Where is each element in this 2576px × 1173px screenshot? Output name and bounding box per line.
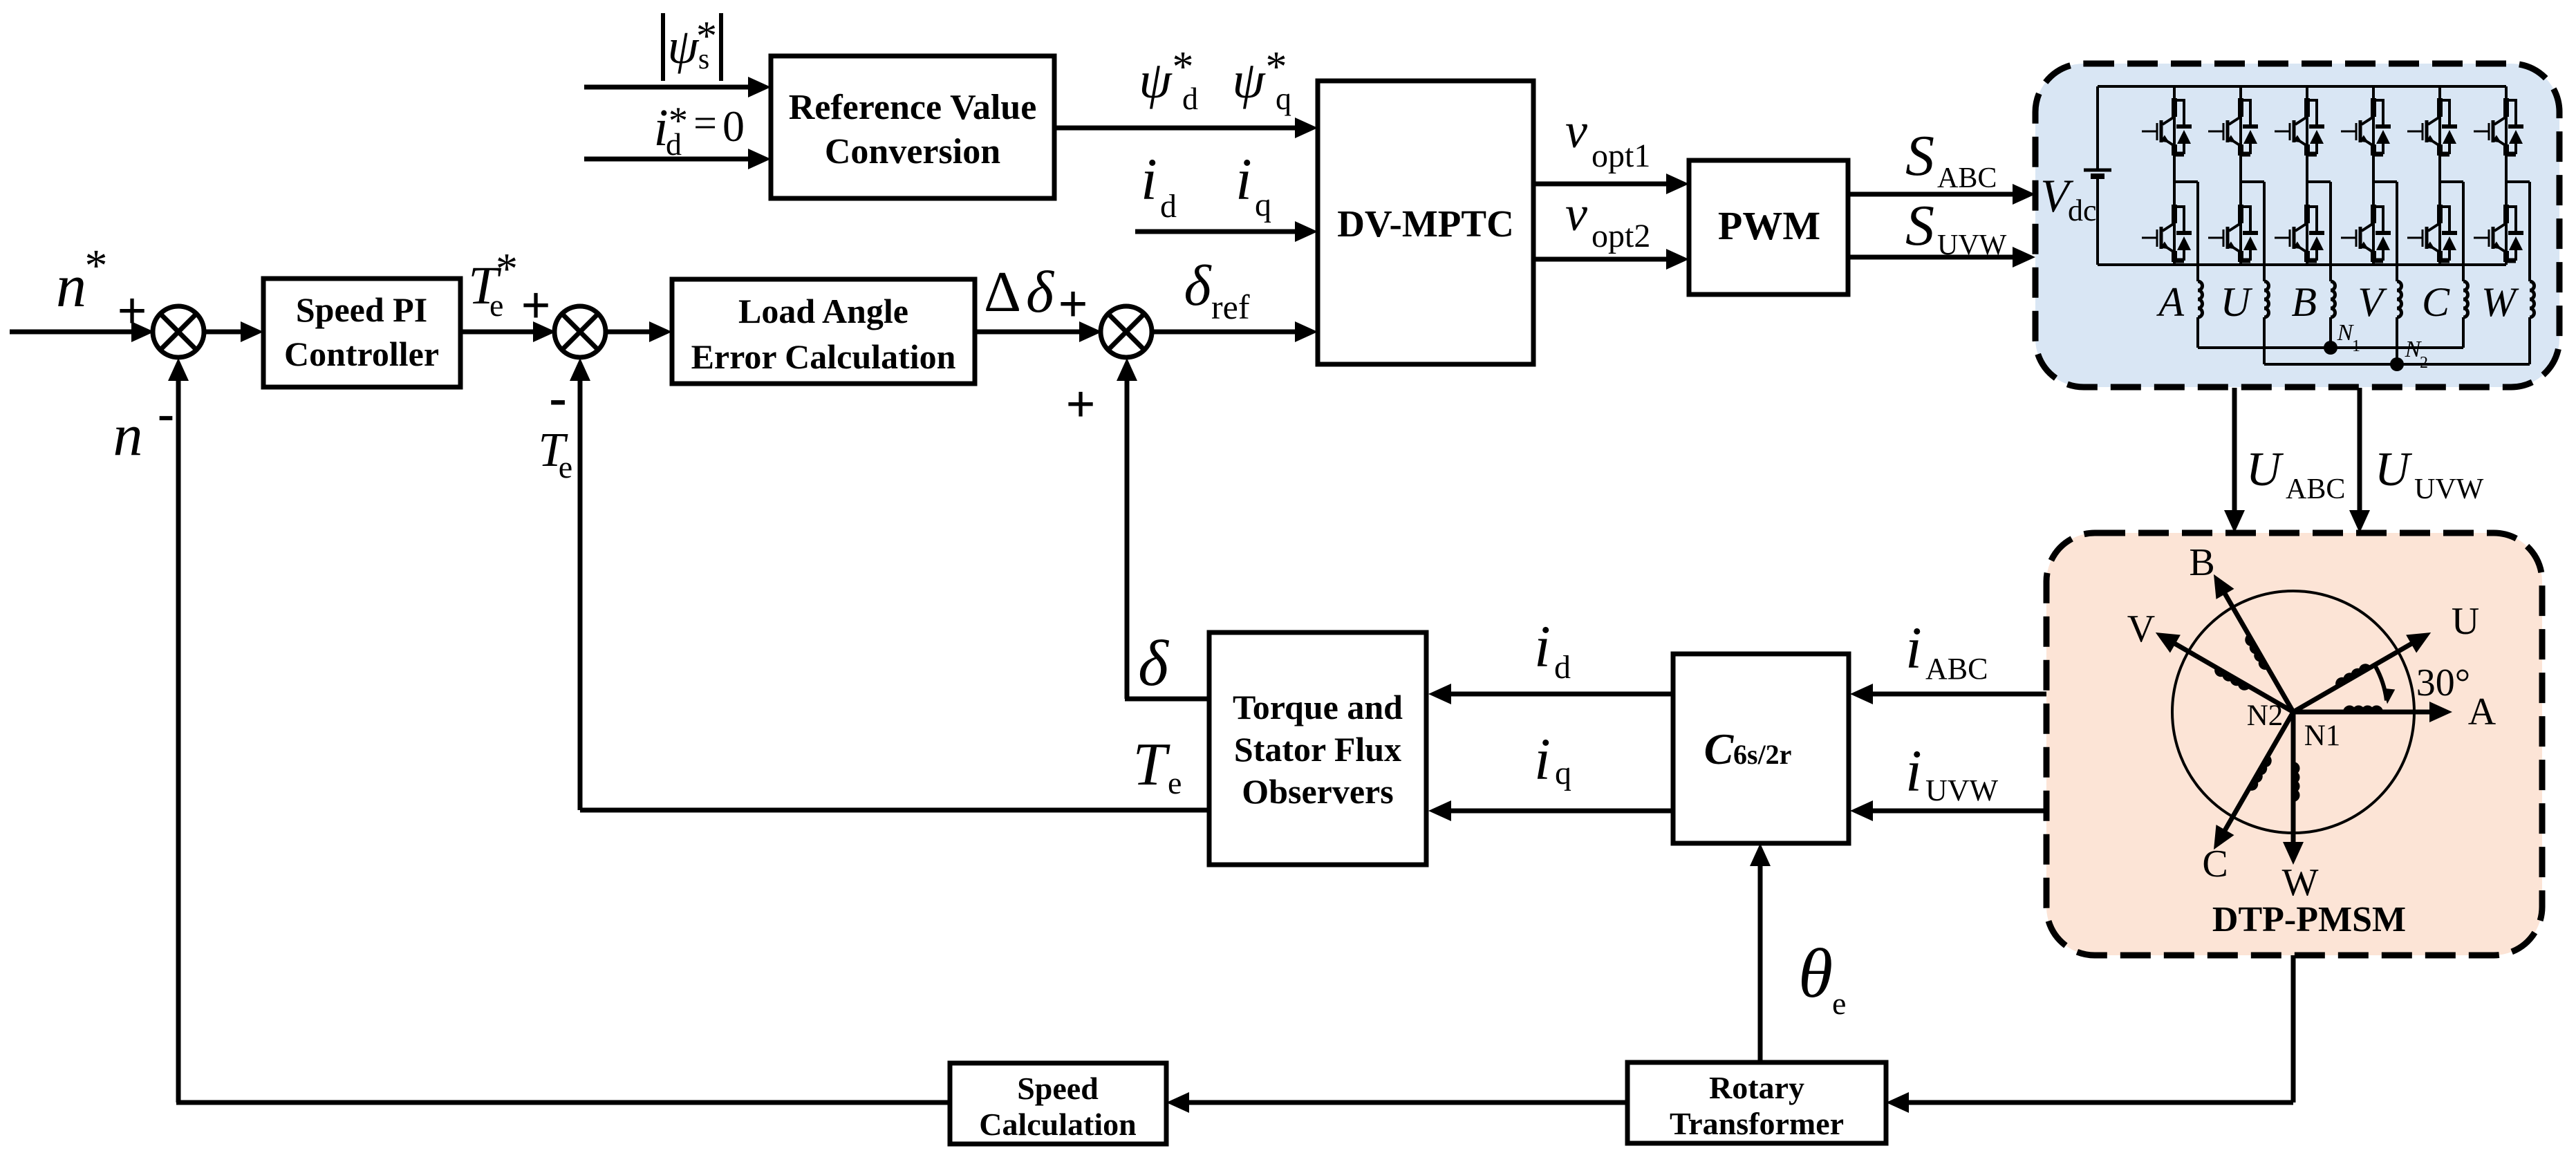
svg-text:S: S [1905, 194, 1934, 258]
coil C bottom wire [2462, 317, 2465, 348]
motor dashed enclosure [2046, 533, 2542, 955]
phase tap wire V [2373, 180, 2397, 183]
svg-text:Stator Flux: Stator Flux [1234, 730, 1401, 769]
IGBT top leg B with freewheel diode [2304, 98, 2310, 117]
coil W bottom wire [2528, 317, 2531, 364]
inverter leg W wire [2505, 86, 2508, 265]
phase tap wire A [2174, 180, 2198, 183]
svg-text:Speed: Speed [1017, 1071, 1099, 1106]
IGBT bottom leg C with freewheel diode [2437, 205, 2443, 223]
block Torque and Stator Flux Observers [1209, 632, 1426, 865]
wire vopt1 to PWM [1533, 182, 1668, 187]
wire id*=0 input [584, 157, 749, 162]
wire Rotary Transformer to Speed Calculation [1188, 1100, 1627, 1105]
wire motor to Rotary Transformer [2291, 955, 2296, 1102]
wire Te feedback vertical into S2 [578, 379, 583, 810]
svg-text:ABC: ABC [1937, 162, 1997, 194]
svg-text:n: n [113, 402, 143, 468]
svg-text:V: V [2127, 608, 2155, 650]
motor winding spoke C [2225, 712, 2294, 831]
wire n feedback vertical into S1 [176, 379, 181, 1102]
svg-text:ψ: ψ [1139, 51, 1173, 109]
svg-text:Conversion: Conversion [825, 132, 1000, 171]
inverter leg C wire [2438, 86, 2441, 265]
wire i_UVW motor to C6s/2r [1872, 809, 2046, 814]
svg-text:e: e [559, 449, 572, 485]
svg-text:s: s [698, 44, 709, 75]
motor winding spoke B [2225, 593, 2294, 712]
svg-text:opt2: opt2 [1592, 218, 1650, 254]
svg-text:ψ: ψ [668, 19, 700, 74]
block PWM [1689, 160, 1848, 294]
inverter winding coil U [2264, 281, 2269, 317]
wire delta feedback horizontal [1125, 697, 1211, 702]
inverter winding coil B [2331, 281, 2335, 317]
svg-text:UVW: UVW [1937, 229, 2007, 261]
wire speed feedback horizontal [176, 1100, 950, 1105]
phase tap wire U [2241, 180, 2264, 183]
svg-text:ref: ref [1211, 288, 1250, 326]
svg-text:U: U [2246, 443, 2284, 496]
motor winding spoke W [2291, 712, 2296, 843]
svg-text:C: C [2422, 279, 2450, 325]
wire psi_dq* to DV-MPTC [1054, 126, 1296, 131]
wire S_UVW to inverter [1848, 255, 2014, 260]
svg-text:-: - [158, 386, 174, 441]
svg-text:Speed PI: Speed PI [296, 290, 427, 329]
IGBT top leg A with freewheel diode [2172, 98, 2177, 117]
svg-text:N2: N2 [2247, 700, 2284, 732]
wire S1 to Speed PI Controller [203, 330, 242, 335]
neutral N1 bus wire [2198, 346, 2463, 349]
battery Vdc wire bottom [2096, 176, 2099, 265]
svg-text:Controller: Controller [284, 335, 439, 373]
arc 30 degrees between A and U axes [2376, 666, 2387, 700]
svg-text:Load Angle: Load Angle [738, 292, 908, 330]
coil U bottom wire [2263, 317, 2266, 364]
svg-text:i: i [1141, 146, 1157, 212]
svg-text:Error Calculation: Error Calculation [691, 337, 956, 376]
wire id iq to DV-MPTC [1135, 229, 1296, 234]
inverter leg U wire [2239, 86, 2242, 265]
svg-text:δ: δ [1026, 259, 1055, 325]
svg-text:q: q [1255, 187, 1271, 223]
dc bus bottom rail [2098, 263, 2506, 266]
wire S3 to DV-MPTC [1152, 330, 1296, 335]
wire Te feedback horizontal [580, 808, 1211, 813]
svg-text:+: + [117, 282, 147, 340]
svg-text:e: e [1168, 765, 1182, 800]
svg-text:A: A [2156, 279, 2184, 325]
IGBT top leg V with freewheel diode [2371, 98, 2376, 117]
svg-text:+: + [1065, 375, 1095, 433]
svg-text:*: * [496, 244, 518, 293]
wire S_ABC to inverter [1848, 192, 2014, 197]
svg-text:q: q [1555, 755, 1571, 791]
svg-text:θ: θ [1798, 935, 1833, 1013]
IGBT top leg U with freewheel diode [2238, 98, 2243, 117]
svg-text:ABC: ABC [1925, 652, 1988, 686]
svg-text:Torque and: Torque and [1233, 688, 1403, 726]
coil A bottom wire [2196, 317, 2199, 348]
block Speed Calculation [950, 1063, 1166, 1144]
wire Speed PI to S2 [460, 330, 534, 335]
svg-text:i: i [1534, 726, 1551, 792]
svg-text:Δ: Δ [984, 260, 1021, 324]
svg-text:2: 2 [2420, 354, 2428, 372]
wire Load Angle to S3 [975, 330, 1081, 335]
svg-text:e: e [1832, 986, 1846, 1021]
svg-text:d: d [1182, 81, 1198, 116]
svg-text:C: C [1704, 724, 1735, 773]
svg-text:opt1: opt1 [1592, 138, 1650, 174]
wire i_q C6s/2r to observers [1450, 809, 1673, 814]
IGBT top leg C with freewheel diode [2437, 98, 2443, 117]
svg-text:U: U [2221, 279, 2253, 325]
svg-text:S: S [1905, 124, 1934, 188]
block Load Angle Error Calculation [672, 279, 975, 384]
wire U_UVW inverter to motor [2358, 388, 2362, 512]
motor winding spoke U [2293, 644, 2412, 713]
coil B bottom wire [2329, 317, 2332, 348]
svg-text:T: T [1133, 731, 1171, 798]
svg-text:UVW: UVW [2414, 473, 2484, 505]
svg-text:A: A [2468, 691, 2496, 733]
svg-text:*: * [85, 241, 108, 291]
block Rotary Transformer [1627, 1062, 1886, 1143]
IGBT bottom leg U with freewheel diode [2238, 205, 2243, 223]
svg-text:ABC: ABC [2286, 473, 2345, 505]
svg-text:dc: dc [2068, 194, 2097, 227]
motor winding spoke V [2174, 644, 2293, 713]
svg-text:N1: N1 [2304, 720, 2341, 752]
svg-text:d: d [1160, 188, 1177, 225]
dc bus top rail [2098, 85, 2506, 88]
wire S2 to Load Angle Error Calculation [604, 330, 651, 335]
inverter leg V wire [2372, 86, 2375, 265]
svg-text:Transformer: Transformer [1670, 1106, 1844, 1141]
IGBT bottom leg A with freewheel diode [2172, 205, 2177, 223]
svg-text:W: W [2481, 279, 2519, 325]
IGBT bottom leg V with freewheel diode [2371, 205, 2376, 223]
svg-text:1: 1 [2352, 337, 2360, 355]
svg-text:v: v [1565, 186, 1587, 241]
wire theta_e Rotary Transformer to C6s/2r [1758, 865, 1763, 1062]
svg-text:C: C [2202, 843, 2228, 885]
summing junction S2 [554, 306, 606, 357]
phase tap wire W [2506, 180, 2530, 183]
motor stator circle [2172, 591, 2414, 833]
summing junction S3 [1101, 306, 1152, 357]
svg-text:DTP-PMSM: DTP-PMSM [2212, 900, 2406, 939]
svg-text:q: q [1276, 81, 1291, 116]
summing junction S1 [153, 306, 204, 357]
wire n* input [10, 330, 133, 335]
coil V bottom wire [2396, 317, 2398, 364]
svg-text:-: - [549, 368, 566, 426]
wire flux reference input [584, 85, 749, 90]
svg-text:δ: δ [1138, 628, 1169, 700]
inverter leg B wire [2306, 86, 2308, 265]
wire vopt2 to PWM [1533, 257, 1668, 262]
svg-text:i: i [1905, 738, 1922, 804]
svg-text:0: 0 [722, 102, 745, 151]
inverter winding coil W [2530, 281, 2535, 317]
svg-text:e: e [489, 288, 503, 323]
svg-text:DV-MPTC: DV-MPTC [1337, 203, 1514, 245]
svg-text:PWM: PWM [1718, 203, 1820, 248]
battery Vdc wire top [2096, 86, 2099, 170]
svg-text:i: i [1905, 614, 1922, 681]
inverter leg A wire [2173, 86, 2176, 265]
IGBT bottom leg B with freewheel diode [2304, 205, 2310, 223]
wire delta feedback vertical into S3 [1125, 379, 1130, 699]
phase tap wire B [2307, 180, 2331, 183]
battery Vdc plate long [2084, 169, 2111, 172]
svg-text:W: W [2282, 861, 2319, 904]
wire U_ABC inverter to motor [2232, 388, 2237, 512]
svg-text:δ: δ [1184, 254, 1212, 318]
svg-text:Observers: Observers [1242, 772, 1393, 811]
motor winding spoke A [2293, 710, 2431, 715]
block Speed PI Controller [263, 279, 460, 387]
label |psi_s*| [661, 13, 665, 81]
svg-text:UVW: UVW [1925, 773, 1999, 807]
block Reference Value Conversion [771, 56, 1054, 198]
battery Vdc plate short [2091, 173, 2104, 179]
svg-text:=: = [693, 100, 717, 146]
svg-text:U: U [2375, 443, 2413, 496]
svg-text:30°: 30° [2416, 661, 2470, 704]
neutral N2 bus wire [2264, 363, 2530, 366]
IGBT bottom leg W with freewheel diode [2503, 205, 2509, 223]
phase tap wire C [2440, 180, 2463, 183]
svg-text:B: B [2189, 541, 2214, 584]
svg-text:n: n [56, 253, 86, 320]
svg-text:d: d [1554, 649, 1571, 686]
svg-text:V: V [2358, 279, 2387, 325]
neutral N1 junction dot [2324, 341, 2337, 355]
svg-text:B: B [2291, 279, 2317, 325]
inverter winding coil A [2198, 281, 2203, 317]
svg-text:i: i [1235, 146, 1252, 212]
svg-text:d: d [666, 126, 682, 162]
svg-text:U: U [2452, 600, 2479, 643]
wire i_d C6s/2r to observers [1450, 692, 1673, 697]
wire i_ABC motor to C6s/2r [1872, 692, 2046, 697]
block DV-MPTC [1318, 81, 1533, 364]
svg-text:Calculation: Calculation [979, 1107, 1136, 1142]
block C6s/2r [1673, 654, 1849, 843]
svg-text:v: v [1565, 103, 1587, 158]
svg-text:Reference Value: Reference Value [789, 88, 1037, 127]
svg-text:ψ: ψ [1232, 51, 1266, 109]
IGBT top leg W with freewheel diode [2503, 98, 2509, 117]
neutral N2 junction dot [2390, 357, 2404, 371]
svg-text:i: i [1534, 613, 1551, 679]
inverter winding coil V [2397, 281, 2402, 317]
svg-text:6s/2r: 6s/2r [1733, 739, 1791, 770]
svg-text:Rotary: Rotary [1709, 1070, 1804, 1105]
inverter winding coil C [2463, 281, 2468, 317]
inverter dashed enclosure [2035, 64, 2559, 387]
